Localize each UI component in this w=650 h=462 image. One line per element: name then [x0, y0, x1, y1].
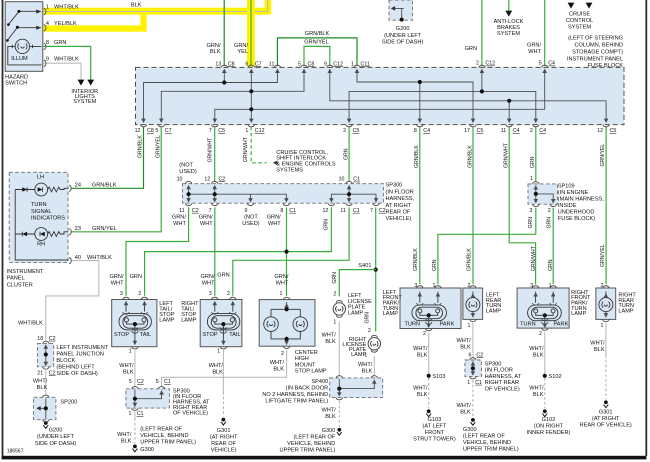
- G200 box (top): [389, 0, 412, 20]
- svg-text:BLK: BLK: [131, 2, 142, 8]
- svg-text:S103: S103: [432, 374, 445, 380]
- svg-text:2: 2: [333, 292, 336, 298]
- row top pin chevrons: [185, 181, 192, 183]
- text license chains wht/blk: [322, 333, 373, 420]
- svg-text:C12: C12: [333, 61, 343, 67]
- svg-text:UNDERHOOD: UNDERHOOD: [558, 210, 595, 216]
- svg-text:GRN/BLK: GRN/BLK: [305, 31, 330, 37]
- svg-text:STOP LAMP: STOP LAMP: [295, 368, 327, 374]
- wire WHT/BLK right rear turn pin 1 to G301: [605, 323, 607, 355]
- svg-text:GRN/: GRN/: [267, 215, 281, 221]
- center lamp pin chevrons: [283, 297, 290, 299]
- left rear turn lamp box: [463, 288, 483, 319]
- left rear turn lamp internal bulb: [466, 292, 480, 318]
- left license plate lamp bulb: [333, 303, 345, 315]
- text rotated wire labels upper band: [138, 135, 606, 168]
- svg-text:RIGHT REAR: RIGHT REAR: [485, 380, 519, 386]
- svg-text:11: 11: [269, 61, 275, 67]
- wire WHT/BLK SP400 to G300: [338, 401, 340, 427]
- svg-text:21: 21: [37, 370, 43, 376]
- svg-text:7: 7: [209, 208, 212, 214]
- svg-text:TURN: TURN: [31, 202, 47, 208]
- svg-text:24: 24: [75, 183, 81, 189]
- frame left border: [2, 0, 4, 456]
- svg-text:11: 11: [340, 208, 346, 214]
- junction block pin chevrons: [43, 341, 50, 343]
- svg-text:UPPER TRIM PANEL): UPPER TRIM PANEL): [140, 439, 196, 445]
- svg-text:C7: C7: [165, 128, 172, 134]
- left tail lamp internal bulb: [119, 302, 151, 344]
- left rear turn lamp pin chevrons: [470, 286, 477, 288]
- svg-text:BLK: BLK: [362, 368, 373, 374]
- text cluster pins: [75, 183, 117, 261]
- svg-text:6: 6: [468, 352, 471, 358]
- svg-text:(LEFT REAR OF: (LEFT REAR OF: [293, 435, 335, 441]
- svg-text:HARNESS,: HARNESS,: [386, 196, 415, 202]
- hazard switch box: [5, 2, 43, 72]
- row internal bus 1: [189, 194, 287, 200]
- svg-text:TAIL: TAIL: [229, 332, 240, 338]
- svg-text:SP109: SP109: [558, 184, 575, 190]
- svg-text:WHT/BLK: WHT/BLK: [54, 5, 79, 11]
- svg-text:WHT: WHT: [111, 280, 124, 286]
- text SP300 left tail pins: [129, 379, 171, 417]
- arrow cruise shift interlock: [273, 161, 277, 166]
- svg-text:YEL/BLK: YEL/BLK: [54, 21, 77, 27]
- svg-text:VEHICLE, BEHIND: VEHICLE, BEHIND: [287, 441, 335, 447]
- svg-text:C8: C8: [308, 61, 315, 67]
- text SP300 left tail label: [173, 388, 210, 416]
- svg-text:2: 2: [227, 291, 230, 297]
- svg-text:HIGH: HIGH: [295, 356, 309, 362]
- svg-text:SYSTEM: SYSTEM: [568, 24, 591, 30]
- svg-text:HAZARD: HAZARD: [5, 75, 28, 81]
- svg-text:C1: C1: [164, 379, 171, 385]
- svg-text:(UNDER LEFT: (UNDER LEFT: [384, 33, 422, 39]
- svg-text:BLK: BLK: [325, 339, 336, 345]
- svg-text:1: 1: [245, 128, 248, 134]
- svg-text:VEHICLE, BEHIND: VEHICLE, BEHIND: [463, 440, 511, 446]
- wire WHT/BLK right front park/turn pin 2 to S102: [544, 332, 546, 376]
- text tail lamp wire labels: [110, 273, 289, 287]
- text fuse block bottom pin labels: [135, 128, 617, 134]
- SP400 internal: [339, 379, 374, 394]
- svg-text:WHT/: WHT/: [117, 432, 132, 438]
- fuse block internal trace 1C11-8C4-17C5: [357, 71, 473, 120]
- junction dot 6C7/91: [249, 89, 253, 93]
- svg-text:G102: G102: [542, 417, 556, 423]
- cluster pin chevrons: [69, 185, 71, 192]
- svg-text:C2: C2: [137, 379, 144, 385]
- svg-text:WHT/: WHT/: [457, 338, 472, 344]
- bracket wire GRN/YEL pins 5 C8 to 9 C12: [304, 46, 330, 66]
- svg-text:5: 5: [155, 128, 158, 134]
- svg-text:C4: C4: [539, 128, 546, 134]
- row internal vertical 12C2-7: [214, 187, 216, 200]
- wire dashed to G300 left: [134, 418, 136, 444]
- svg-text:3: 3: [209, 291, 212, 297]
- svg-text:LIFTGATE TRIM PANEL): LIFTGATE TRIM PANEL): [265, 398, 328, 404]
- cluster RH indicator: [15, 233, 35, 235]
- svg-text:LAMP: LAMP: [348, 310, 364, 316]
- text fuse block top pin labels: [215, 61, 555, 68]
- junction block internal: [45, 345, 47, 366]
- svg-text:GRN: GRN: [324, 219, 330, 231]
- text cluster labels: [37, 174, 45, 247]
- ground G102: [542, 409, 547, 416]
- text row not used top: [179, 163, 197, 175]
- svg-text:C2: C2: [218, 176, 225, 182]
- svg-text:2: 2: [423, 331, 426, 337]
- wire GRN rail from right tail pin 2 to SP300 pin 11 C1: [233, 207, 349, 295]
- svg-text:C2: C2: [192, 208, 199, 214]
- wire GRN/WHT from top to fuse block pin 5 C4: [544, 0, 546, 66]
- svg-text:SP300: SP300: [386, 183, 403, 189]
- svg-text:SP400: SP400: [311, 379, 328, 385]
- svg-text:(LEFT REAR OF: (LEFT REAR OF: [140, 426, 182, 432]
- svg-text:(AT LEFT: (AT LEFT: [423, 423, 447, 429]
- svg-text:GRN: GRN: [54, 40, 66, 46]
- svg-text:G103: G103: [428, 417, 442, 423]
- right rear turn lamp internal bulb: [599, 292, 613, 318]
- svg-text:CRUISE: CRUISE: [569, 11, 590, 17]
- svg-text:WHT: WHT: [202, 280, 215, 286]
- right front lamp pin chevrons: [532, 286, 539, 288]
- svg-text:G301: G301: [217, 428, 231, 434]
- SP200 box: [34, 397, 56, 419]
- svg-text:5: 5: [129, 379, 132, 385]
- svg-text:GRN/YEL: GRN/YEL: [304, 40, 329, 46]
- arrow anti-lock brakes: [505, 11, 512, 17]
- svg-text:12: 12: [322, 208, 328, 214]
- right front park/turn lamp box: [517, 288, 569, 328]
- svg-text:PANEL: PANEL: [7, 276, 25, 282]
- text S102 chain: [529, 346, 544, 398]
- svg-text:GRN/YEL: GRN/YEL: [156, 135, 162, 158]
- text right front lamp: [530, 283, 551, 337]
- svg-text:7: 7: [209, 128, 212, 134]
- arrow cruise control left: [568, 3, 575, 9]
- svg-text:FUSE BLOCK): FUSE BLOCK): [558, 216, 595, 222]
- text hazard switch label: [5, 56, 28, 87]
- ground G301 (right rear chain): [604, 400, 609, 407]
- svg-text:BLK: BLK: [417, 392, 428, 398]
- svg-text:C2: C2: [476, 352, 483, 358]
- svg-text:WHT/: WHT/: [413, 346, 428, 352]
- SP400 pin chevrons: [336, 376, 343, 378]
- svg-text:SIGNAL: SIGNAL: [31, 209, 52, 215]
- svg-text:10: 10: [339, 177, 345, 183]
- wire WHT/BLK left tail pin 1 to SP300 5 C2: [134, 350, 136, 387]
- text G300 left tail: [117, 432, 132, 445]
- svg-text:SIDE OF DASH): SIDE OF DASH): [56, 371, 97, 377]
- svg-text:5: 5: [156, 379, 159, 385]
- svg-text:G200: G200: [49, 428, 63, 434]
- arrow interior lights left: [78, 80, 85, 86]
- wire GRN/BLK fuse block 17 C5 to left rear turn pin 2: [472, 127, 474, 285]
- right front park/turn lamp internal bulb: [528, 292, 562, 327]
- svg-text:(IN ENGINE: (IN ENGINE: [558, 190, 589, 196]
- svg-text:2: 2: [530, 128, 533, 134]
- left instrument panel junction block box: [37, 344, 53, 367]
- svg-text:C1: C1: [475, 380, 482, 386]
- text wht/blk labels tail chains: [119, 360, 284, 375]
- svg-text:C5: C5: [218, 128, 225, 134]
- svg-text:ANTI-LOCK: ANTI-LOCK: [494, 19, 524, 25]
- wire WHT/BLK left license pin 1 to SP400: [338, 322, 340, 376]
- SP300 box (left rear turn chain): [465, 360, 482, 377]
- fuse block top pin chevrons: [221, 65, 228, 67]
- svg-text:40: 40: [75, 255, 81, 261]
- wire GRN/WHT dashed 1 C12 to cruise/shift interlock: [251, 127, 266, 163]
- SP400 box: [330, 378, 383, 398]
- svg-text:GRN/WHT: GRN/WHT: [531, 245, 537, 271]
- svg-text:GRN/WHT: GRN/WHT: [503, 142, 509, 168]
- wire GRN/YEL fuse block 12 C5 to right rear turn pin 2: [605, 127, 607, 285]
- wire dashed to G301 right: [605, 355, 607, 399]
- svg-text:13: 13: [215, 61, 221, 67]
- svg-text:C4: C4: [423, 128, 430, 134]
- svg-text:SYSTEM: SYSTEM: [497, 31, 520, 37]
- row internal vertical pin 9: [250, 194, 252, 200]
- svg-text:1: 1: [467, 323, 470, 329]
- svg-text:BLOCK: BLOCK: [56, 358, 75, 364]
- svg-text:BLK: BLK: [325, 414, 336, 420]
- svg-text:BLK: BLK: [121, 438, 132, 444]
- svg-text:CLUSTER: CLUSTER: [7, 282, 33, 288]
- fuse block internal trace 7C5-1C12-5C4: [215, 71, 545, 120]
- svg-text:LAMP: LAMP: [181, 318, 197, 324]
- left front park/turn lamp internal bulb: [412, 292, 447, 327]
- svg-text:2: 2: [281, 351, 284, 357]
- svg-text:2: 2: [548, 208, 551, 214]
- svg-text:BLK: BLK: [212, 369, 223, 375]
- text left chain junction block: [18, 320, 43, 326]
- text SP300 left rear turn label: [485, 362, 522, 393]
- text anti-lock brakes system: [494, 19, 524, 37]
- svg-text:WHT/: WHT/: [209, 363, 224, 369]
- svg-text:SP300: SP300: [485, 362, 502, 368]
- SP109 internal: [536, 187, 553, 201]
- highlight: YEL/BLK hazard feed yellow band: [44, 25, 147, 31]
- text G200 top: [382, 26, 423, 45]
- wire GRN S401 branch to left license lamp pin 2: [339, 270, 375, 297]
- svg-text:3: 3: [414, 283, 417, 289]
- arrow interior lights right: [87, 80, 94, 86]
- svg-text:GRN/: GRN/: [201, 274, 215, 280]
- wire GRN SP109 pin 3 to left front park/turn pin 1: [438, 208, 536, 285]
- svg-text:2: 2: [600, 283, 603, 289]
- wire WHT/BLK SP300 1 C1 to G300: [134, 412, 136, 419]
- svg-text:C4: C4: [548, 61, 555, 67]
- svg-text:GRN: GRN: [130, 274, 142, 280]
- svg-text:COLUMN, BEHIND: COLUMN, BEHIND: [575, 43, 623, 49]
- svg-text:GRN/: GRN/: [172, 215, 186, 221]
- wire GRN hazard pin 8 to interior lights: [44, 46, 91, 80]
- svg-text:12: 12: [597, 128, 603, 134]
- svg-text:8: 8: [280, 208, 283, 214]
- svg-text:INSIDE: INSIDE: [558, 203, 577, 209]
- svg-text:C8: C8: [147, 128, 154, 134]
- svg-text:1: 1: [46, 5, 49, 11]
- junction dot 2C12: [480, 89, 484, 93]
- text right tail lamp label: [181, 301, 199, 324]
- wire WHT/BLK left rear turn pin 1 to SP300 6 C2: [472, 323, 474, 358]
- svg-text:GRN: GRN: [217, 273, 229, 279]
- ground G200 (bottom): [43, 421, 48, 428]
- wire GRN/YEL fuse block 5 C7 to cluster pin 23: [71, 127, 161, 232]
- highlight: GRN/YEL vertical yellow band: [247, 0, 255, 67]
- svg-text:C2: C2: [49, 370, 56, 376]
- svg-text:WHT/BLK: WHT/BLK: [18, 320, 43, 326]
- text license lamps labels: [333, 292, 371, 359]
- right rear turn lamp pin chevrons: [603, 286, 610, 288]
- left tail/stop lamp box: [112, 300, 157, 347]
- text row lower GRN/WHT labels: [172, 215, 281, 228]
- svg-text:C5: C5: [353, 128, 360, 134]
- wire GRN from top to fuse block pin 2 C12: [481, 0, 483, 66]
- svg-text:1: 1: [530, 176, 533, 182]
- svg-text:YEL: YEL: [237, 49, 248, 55]
- svg-text:2: 2: [476, 61, 479, 67]
- svg-text:GRN/WHT: GRN/WHT: [207, 137, 213, 163]
- highlight: WHT/BLK hazard feed yellow band: [44, 8, 272, 15]
- right rear turn lamp box: [596, 288, 616, 319]
- svg-text:LEFT INSTRUMENT: LEFT INSTRUMENT: [56, 345, 108, 351]
- wire GRN/WHT fuse block 11 C4 to right front park/turn pin 3: [509, 127, 535, 285]
- bracket wire GRN/BLK pins 11 to 1 C11: [277, 38, 357, 66]
- svg-text:RH: RH: [37, 241, 45, 247]
- hazard switch contact 1: [8, 11, 37, 24]
- wire GRN SP109 pin 2 to right front park/turn pin 1: [552, 208, 554, 285]
- svg-text:SP200: SP200: [60, 399, 77, 405]
- wire GRN/YEL vertical from top to fuse block pin 6 C7: [250, 0, 252, 66]
- svg-text:6: 6: [245, 61, 248, 67]
- text SP109 pins and label: [529, 176, 550, 214]
- left license lamp pin chevrons: [336, 300, 343, 302]
- svg-text:GRN: GRN: [343, 148, 349, 160]
- fuse block internal trace 2C5-2C12-2C4: [349, 91, 536, 120]
- arrow cruise control right: [586, 3, 593, 9]
- svg-text:(BEHIND LEFT: (BEHIND LEFT: [56, 364, 95, 370]
- wire WHT/BLK left front park/turn pin 2 to S103: [428, 333, 430, 376]
- text right rear turn lamp: [600, 283, 603, 329]
- svg-text:23: 23: [75, 226, 81, 232]
- cluster internal bus: [15, 190, 68, 261]
- wire GRN/WHT fuse block 7 C5 to row pin 12 C2: [214, 127, 216, 182]
- svg-text:GRN: GRN: [528, 217, 534, 229]
- frame right border: [645, 0, 647, 456]
- svg-text:WHT/: WHT/: [529, 385, 544, 391]
- svg-text:INDICATORS: INDICATORS: [31, 216, 65, 222]
- svg-text:C5: C5: [477, 128, 484, 134]
- svg-text:4: 4: [46, 21, 49, 27]
- svg-text:GRN: GRN: [364, 312, 370, 324]
- svg-text:WHT/: WHT/: [322, 408, 337, 414]
- svg-text:2: 2: [368, 328, 371, 334]
- svg-text:(IN FLOOR: (IN FLOOR: [386, 189, 414, 195]
- svg-text:WHT/: WHT/: [119, 363, 134, 369]
- svg-text:C2: C2: [49, 336, 56, 342]
- text left rear turn lamp: [467, 283, 470, 329]
- SP300 left rear turn internal: [472, 361, 474, 375]
- fuse block riser pin 6 C7 to 1 C12: [250, 71, 252, 120]
- svg-text:11: 11: [179, 208, 185, 214]
- svg-text:5: 5: [298, 61, 301, 67]
- svg-text:FRONT: FRONT: [425, 430, 445, 436]
- svg-text:C12: C12: [485, 61, 495, 67]
- svg-text:GRN: GRN: [548, 259, 554, 271]
- svg-text:10: 10: [177, 176, 183, 182]
- svg-text:WHT: WHT: [200, 221, 213, 227]
- wire WHT/BLK right tail pin 1 to G301: [222, 350, 224, 392]
- row bottom pin chevrons: [185, 203, 192, 205]
- svg-text:SIDE OF DASH): SIDE OF DASH): [382, 40, 423, 46]
- svg-text:(AT RIGHT: (AT RIGHT: [592, 416, 620, 422]
- svg-text:8: 8: [46, 40, 49, 46]
- svg-text:GRN: GRN: [547, 217, 553, 229]
- text SP300 strip label: [386, 183, 415, 223]
- svg-text:LAMP: LAMP: [571, 311, 587, 317]
- svg-text:1: 1: [280, 291, 283, 297]
- text instrument panel cluster: [7, 269, 44, 288]
- svg-text:OF VEHICLE): OF VEHICLE): [173, 411, 208, 417]
- text G300 SP400 chain: [280, 428, 336, 454]
- svg-text:CONTROL: CONTROL: [566, 18, 593, 24]
- svg-text:G300: G300: [140, 447, 154, 453]
- svg-text:C11: C11: [361, 61, 370, 67]
- svg-text:WHT/BLK: WHT/BLK: [54, 57, 79, 63]
- wire WHT/BLK SP200 to G200: [45, 420, 47, 421]
- svg-text:WHT/: WHT/: [33, 379, 48, 385]
- svg-text:GRN/YEL: GRN/YEL: [600, 144, 606, 167]
- ground G103: [426, 409, 431, 416]
- svg-text:WHT/BLK: WHT/BLK: [87, 255, 112, 261]
- text left front lamp: [414, 283, 435, 337]
- svg-text:FUSE BLOCK: FUSE BLOCK: [588, 63, 624, 69]
- svg-text:INSTRUMENT: INSTRUMENT: [7, 269, 44, 275]
- row internal vertical 10C1: [348, 187, 350, 200]
- svg-text:17: 17: [464, 128, 470, 134]
- svg-text:1: 1: [549, 283, 552, 289]
- wire WHT/BLK center lamp pin 2 to SP300 5 C1: [162, 350, 287, 387]
- wire dashed S102 to G102: [544, 378, 546, 408]
- svg-text:G301: G301: [599, 410, 613, 416]
- svg-text:3: 3: [120, 291, 123, 297]
- text GRN labels top right: [465, 42, 542, 55]
- svg-text:WHT/: WHT/: [413, 385, 428, 391]
- wire GRN rail from left tail pin 2 to SP300 pin 12: [145, 207, 332, 295]
- fuse block riser bottom 11 C4: [508, 101, 510, 120]
- wire GRN/BLK vertical from top to fuse block pin 13 C8: [223, 0, 225, 66]
- wire WHT/BLK hazard pin 9 to interior lights: [44, 63, 82, 80]
- wire GRN/WHT row 11 C2 to left tail lamp pin 3: [126, 207, 189, 295]
- svg-text:HARNESS, AT: HARNESS, AT: [485, 374, 522, 380]
- svg-text:BLK: BLK: [210, 49, 221, 55]
- wire WHT/BLK cluster pin 40 to junction block 18 C2: [46, 261, 99, 341]
- center high mount lamp internal: [264, 302, 308, 344]
- svg-text:WHT: WHT: [276, 280, 289, 286]
- svg-text:PARK: PARK: [553, 321, 568, 327]
- svg-text:TURN: TURN: [520, 321, 536, 327]
- svg-text:SIDE OF DASH): SIDE OF DASH): [35, 441, 76, 447]
- text cruise control system: [566, 11, 593, 30]
- svg-text:VEHICLE): VEHICLE): [211, 448, 237, 454]
- svg-text:9: 9: [244, 208, 247, 214]
- wire GRN to anti-lock brakes arrow: [508, 0, 510, 11]
- junction dot 1C12/109: [249, 107, 253, 111]
- text row top pins: [177, 176, 361, 182]
